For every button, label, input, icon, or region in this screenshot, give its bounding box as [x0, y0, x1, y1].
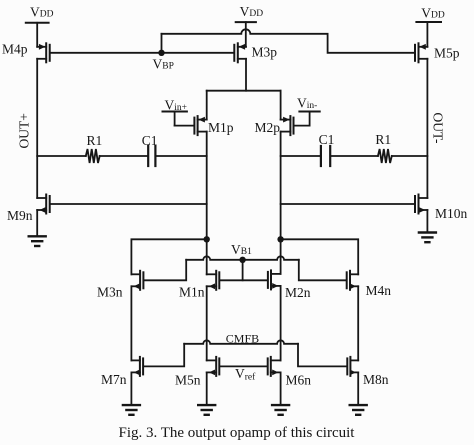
wire M5p drain to M10n drain (OUT- column)	[426, 59, 428, 198]
wire Vin+ to M1p gate	[175, 125, 194, 127]
node dot rail left	[204, 236, 210, 242]
wire VB1 rail to M4n gate	[299, 260, 346, 281]
wire VB1 rail to M3n gate	[144, 260, 186, 281]
wire M9n gate to left column	[51, 203, 207, 205]
wire M10n gate to right column	[281, 203, 414, 205]
transistor M2p	[281, 116, 294, 135]
svg-text:VDD: VDD	[30, 5, 54, 20]
wire C1 to M1p drain column	[157, 155, 207, 157]
svg-text:M2p: M2p	[255, 120, 281, 135]
transistor M3n	[131, 271, 143, 290]
svg-text:VB1: VB1	[231, 242, 252, 257]
node dot rail right	[277, 236, 283, 242]
wire OUT+ RC branch	[37, 155, 86, 157]
wire R1 to OUT- column	[392, 155, 428, 157]
wire CMFB line (hops over both source columns)	[184, 340, 298, 344]
wire R1 to C1 left	[100, 155, 147, 157]
transistor M1p	[194, 116, 206, 135]
wire M7n source to ground	[130, 372, 132, 405]
wire M9n source to ground	[36, 210, 38, 236]
svg-text:M1p: M1p	[208, 120, 234, 135]
svg-text:R1: R1	[87, 133, 103, 148]
transistor M4p	[37, 43, 50, 62]
svg-text:OUT-: OUT-	[431, 113, 446, 145]
svg-text:M10n: M10n	[435, 206, 468, 221]
wire OUT- RC branch	[281, 155, 320, 157]
wire rail to M1p source	[206, 91, 208, 120]
svg-text:M9n: M9n	[7, 208, 33, 223]
wire M2n source to M6n drain	[280, 286, 282, 361]
wire upper mirror rail left segment	[131, 239, 206, 274]
transistor M3p	[234, 43, 246, 62]
ground under M9n	[29, 236, 46, 246]
power VDD right	[416, 6, 445, 47]
transistor M7n	[131, 357, 143, 376]
resistor R1 right	[378, 149, 392, 163]
wire upper mirror rail right segment	[281, 239, 359, 274]
wire Vin- to M2p gate	[295, 125, 310, 127]
resistor R1 left	[86, 149, 100, 163]
svg-text:VDD: VDD	[421, 6, 445, 21]
wire M10n source to ground	[426, 210, 428, 233]
capacitor C1 right	[321, 146, 330, 166]
wire M6n source to ground	[280, 372, 282, 405]
wire rail to M2p source	[280, 91, 282, 120]
svg-text:Vref: Vref	[235, 366, 256, 383]
wire CMFB to M8n gate	[298, 344, 346, 367]
ground under M5n	[198, 405, 215, 415]
capacitor C1 left	[148, 146, 155, 166]
wire M5n source to ground	[206, 372, 208, 405]
svg-text:CMFB: CMFB	[226, 332, 259, 346]
terminal Vin-	[297, 96, 320, 126]
svg-text:R1: R1	[375, 132, 391, 147]
svg-text:OUT+: OUT+	[17, 113, 32, 148]
transistor M1n	[207, 271, 220, 290]
power VDD left	[26, 5, 54, 47]
transistor M2n	[268, 270, 281, 289]
transistor M8n	[347, 357, 358, 376]
wire M3p drain to tail rail	[245, 59, 247, 91]
wire M4n source to M8n drain	[357, 286, 359, 360]
svg-text:M5p: M5p	[434, 46, 460, 61]
wire C1 to R1 right	[331, 155, 378, 157]
wire tail source rail	[207, 90, 281, 92]
wire VBP riser	[161, 34, 163, 53]
wire M4p drain to M9n drain (OUT+ column)	[36, 59, 38, 198]
wire M1n gate to M2n gate	[220, 279, 267, 281]
svg-text:M7n: M7n	[101, 372, 127, 387]
transistor M10n	[415, 195, 427, 214]
terminal Vin+	[163, 97, 188, 125]
wire M1n source to M5n drain	[206, 286, 208, 360]
ground under M8n	[350, 405, 367, 415]
ground under M6n	[272, 405, 289, 415]
wire VB1 dot to M1n/M2n gates	[242, 260, 244, 281]
node VB1 dot	[239, 257, 245, 263]
ground under M7n	[123, 405, 140, 415]
wire M5n gate to M6n gate (Vref net)	[220, 365, 266, 367]
svg-text:VDD: VDD	[240, 4, 264, 19]
node VBP dot	[158, 50, 164, 56]
wire top link VBP to M5p gate (hop over VDD stem)	[162, 29, 415, 53]
wire CMFB to M7n gate	[144, 344, 184, 367]
svg-text:M2n: M2n	[285, 285, 311, 300]
svg-text:M1n: M1n	[179, 285, 205, 300]
wire VB1 rail (hops over both drain columns)	[186, 256, 299, 260]
transistor M6n	[268, 357, 281, 376]
wire M2p drain down to M2n drain	[280, 132, 282, 274]
transistor M4n	[347, 271, 359, 290]
transistor M5n	[207, 357, 220, 376]
svg-text:M5n: M5n	[175, 373, 201, 388]
wire M4p gate to M3p gate (VBP net)	[51, 52, 234, 54]
svg-text:C1: C1	[142, 133, 158, 148]
svg-text:Fig. 3. The output opamp of th: Fig. 3. The output opamp of this circuit	[119, 425, 356, 441]
wire M8n source to ground	[357, 372, 359, 405]
ground under M10n	[419, 233, 436, 243]
svg-text:C1: C1	[319, 132, 335, 147]
wire M1p drain down to M1n drain	[206, 132, 208, 275]
power VDD center	[236, 4, 264, 47]
transistor M9n	[37, 195, 50, 214]
svg-text:M6n: M6n	[286, 373, 312, 388]
svg-text:M4n: M4n	[366, 283, 392, 298]
transistor M5p	[415, 43, 427, 62]
svg-text:M4p: M4p	[2, 42, 28, 57]
svg-text:M3p: M3p	[252, 45, 278, 60]
svg-text:M8n: M8n	[363, 372, 389, 387]
svg-text:M3n: M3n	[97, 285, 123, 300]
svg-text:Vin-: Vin-	[297, 96, 317, 112]
svg-text:Vin+: Vin+	[165, 97, 188, 113]
wire M3n source to M7n drain	[130, 286, 132, 360]
svg-text:VBP: VBP	[153, 57, 174, 72]
